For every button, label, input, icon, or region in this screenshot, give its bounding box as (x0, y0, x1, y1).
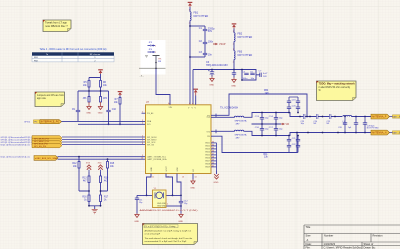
IC pin names left (147, 112, 167, 161)
svg-text:I2C[1..0] MicrocontrollerI2C[1: I2C[1..0] MicrocontrollerI2C[1..0] (1, 143, 30, 146)
port ANTENNA_P (371, 114, 390, 119)
svg-text:RF closure: RF closure (90, 53, 101, 56)
junction at 297,132.5 (296, 132, 298, 134)
wire PG over-route (211, 94, 307, 117)
wire XTAL left loop (147, 174, 153, 196)
series capacitor C25 (327, 114, 332, 125)
svg-text:SRP5030TA: SRP5030TA (235, 134, 248, 137)
wire XIN elbow from white box (156, 68, 170, 105)
svg-text:NOT FITTED: NOT FITTED (238, 54, 253, 57)
junction at 289,112.5 (288, 112, 290, 114)
title block (304, 225, 400, 249)
svg-text:10: 10 (141, 158, 143, 160)
svg-text:100n: 100n (208, 40, 214, 43)
junction at 108.5,124.3 (108, 123, 110, 125)
svg-text:Table 4 - RFID reader to RF fr: Table 4 - RFID reader to RF front end ne… (40, 48, 107, 51)
capacitor pair C19 C20 top stack (287, 97, 300, 113)
svg-text:Size: Size (306, 234, 312, 238)
series inductor L3 (342, 115, 352, 125)
shunt capacitor C27 (354, 117, 358, 133)
svg-text:INTERFACE_PG: INTERFACE_PG (41, 121, 59, 124)
svg-text:GND4: GND4 (205, 152, 210, 154)
wire divider joins (79, 190, 108, 192)
wire mid row (252, 123, 282, 125)
note N2 left (jumpers note) (35, 92, 65, 107)
svg-text:R14: R14 (104, 178, 109, 180)
power flag 3V3 right (98, 163, 103, 172)
ground GND under C11 (134, 214, 139, 223)
svg-text:GND1: GND1 (205, 143, 210, 145)
capacitor C10 right column (106, 109, 116, 124)
capacitor pair C21 C22 bottom stack (287, 136, 300, 153)
svg-text:SRP5030TA: SRP5030TA (235, 120, 248, 123)
svg-text:37: 37 (212, 153, 214, 155)
port ANTENNA_N (371, 130, 390, 135)
capacitor C1 (199, 26, 215, 34)
junction at 100.5,204.5 (100, 205, 102, 207)
svg-text:50V: 50V (208, 30, 213, 33)
svg-text:PG: PG (34, 122, 37, 124)
inductor FB3 (234, 51, 252, 60)
svg-text:ABM8AFN-32.000MHZ-D-4-Y-T (DNI: ABM8AFN-32.000MHZ-D-4-Y-T (DNI) (140, 209, 198, 212)
ground earth bottom divider (92, 209, 98, 214)
svg-text:XIN2: XIN2 (177, 167, 179, 171)
svg-text:40: 40 (212, 162, 214, 164)
junction at 120,124.3 (119, 123, 121, 125)
junction at 298,135.5 (297, 135, 299, 137)
wire port stubs right (390, 117, 393, 133)
series capacitor C23 (301, 114, 306, 125)
IC right ladder pin names (205, 143, 210, 169)
svg-text:VM: VM (286, 124, 290, 126)
svg-text:R15: R15 (110, 163, 115, 165)
svg-text:38: 38 (212, 156, 214, 158)
svg-text:HPQ-4R0-100U/16V: HPQ-4R0-100U/16V (206, 64, 228, 67)
junction at 100.5,190 (100, 190, 102, 192)
capacitor C17 (269, 124, 283, 136)
junction dots rail2 (307, 132, 366, 134)
wire cap branch top (190, 25, 205, 27)
junction at 181,195.4 (180, 195, 182, 197)
resistor R15 (107, 159, 115, 191)
svg-text:NOT FITTED: NOT FITTED (194, 15, 209, 18)
svg-text:GND2: GND2 (205, 146, 210, 148)
svg-text:GND: GND (151, 167, 153, 172)
shunt capacitor C28 (363, 117, 379, 133)
svg-text:GND: GND (98, 112, 103, 114)
svg-text:ANT_N: ANT_N (393, 131, 400, 134)
wire pin13 elbow (177, 174, 181, 196)
port INTERFACE_PG (40, 120, 62, 124)
power flag AVDD ic top (193, 89, 198, 93)
svg-text:1: 1 (155, 45, 156, 47)
svg-text:100n: 100n (243, 78, 249, 80)
svg-text:CL = (C1*C2)/(C1+C2) + Cstray: CL = (C1*C2)/(C1+C2) + Cstray (145, 225, 177, 228)
wire SCL row (78, 123, 146, 125)
power flag R7 top (118, 91, 123, 95)
power flag 3V3 left (86, 163, 91, 172)
IC ladder pin numbers (212, 141, 214, 167)
svg-text:R17: R17 (104, 197, 109, 199)
net label box GPIO (34, 120, 40, 124)
wire RX return (211, 133, 297, 153)
svg-text:GND3: GND3 (205, 149, 210, 151)
junction at 146.5,195.4 (146, 195, 148, 197)
wire main vertical x190 (189, 7, 191, 12)
wire XTAL right loop (166, 174, 173, 196)
IC pin numbers left (141, 112, 143, 160)
svg-text:Number: Number (324, 234, 333, 238)
svg-text:GND: GND (190, 188, 195, 190)
svg-text:3: 3 (142, 120, 143, 122)
svg-text:2: 2 (155, 52, 156, 54)
svg-text:R13: R13 (82, 178, 87, 180)
svg-text:XIN: XIN (169, 107, 173, 109)
svg-text:GPIO4: GPIO4 (24, 121, 31, 123)
svg-text:GND: GND (209, 85, 214, 87)
svg-text:GND: GND (134, 221, 139, 223)
resistor R13 (82, 172, 90, 195)
resistor R12 (72, 157, 80, 191)
note N4 crystal load formula (143, 224, 198, 245)
capacitor C14 (269, 113, 283, 125)
svg-text:= C2 = 8-12.5pF: = C2 = 8-12.5pF (145, 233, 161, 235)
svg-text:34: 34 (212, 144, 214, 146)
capacitor C2 (199, 34, 214, 47)
capacitor C13 (255, 113, 269, 125)
power flag VCC pullup block (98, 69, 103, 73)
inductor L1 tx1 (234, 116, 247, 125)
svg-text:SDA: SDA (147, 120, 152, 123)
pin tick TX2 (215, 130, 217, 134)
shunt capacitor C26 (338, 117, 352, 133)
wire crystal gnd pad (166, 205, 181, 207)
svg-text:Title: Title (306, 225, 311, 229)
junction dots rail1 (299, 116, 366, 118)
svg-text:NOT FITTED: NOT FITTED (238, 36, 253, 39)
svg-text:note DB2141 Rev ?: note DB2141 Rev ? (45, 24, 68, 28)
note N1 top-left (43, 20, 71, 32)
wire pin14 stub (192, 174, 194, 180)
resistor R17 (100, 195, 109, 206)
ground GND under JP1 (86, 102, 91, 114)
wire VIN drop x193 (192, 70, 194, 105)
svg-text:File:: File: (306, 245, 311, 249)
IC pin names top cluster (169, 107, 197, 109)
IC U7 body (146, 105, 212, 174)
junction at 89,204.5 (88, 205, 90, 207)
wire rail2 step down (244, 131, 371, 135)
power flag VSUP2 (232, 23, 237, 27)
svg-text:1R0: 1R0 (265, 93, 270, 95)
power arrow VMID (281, 123, 289, 126)
junction at 190,57 (189, 56, 191, 58)
svg-text:Date:: Date: (306, 242, 312, 246)
junction at 89,190 (88, 190, 90, 192)
wire SMB SCL row (58, 156, 146, 158)
ground GND under C6 (209, 77, 214, 87)
junction at 289,135.5 (288, 135, 290, 137)
junction at 181,206 (180, 205, 182, 207)
ground GND under ladder (214, 171, 219, 184)
resistor R7 (114, 96, 121, 125)
IC bottom pin name verticals (151, 165, 195, 171)
power arrow VBUS right (213, 43, 226, 46)
svg-text:Sheet of: Sheet of (364, 242, 374, 246)
ground GND under JP2 (98, 102, 103, 114)
IC right ladder stubs (211, 143, 217, 171)
net label box ANT N (393, 131, 400, 135)
ground GND under C12 (178, 214, 183, 223)
capacitor C6 electrolytic (206, 61, 228, 76)
junction at 89,91 (88, 90, 90, 92)
svg-text:SPI_SS: SPI_SS (147, 144, 155, 146)
svg-text:16V: 16V (263, 76, 267, 78)
ground GND under rail cap (231, 78, 236, 88)
svg-text:GND: GND (86, 112, 91, 114)
junction at 79,156.7 (78, 156, 80, 158)
svg-text:GND: GND (178, 221, 183, 223)
svg-text:11: 11 (152, 177, 154, 179)
wire bottom join (89, 206, 101, 210)
svg-text:GND8: GND8 (205, 164, 210, 166)
svg-text:36: 36 (212, 150, 214, 152)
IC pin numbers top (168, 103, 196, 105)
junction at 190,26 (189, 25, 191, 27)
net label box ANT P (393, 115, 400, 119)
svg-text:UART_RX/SMB_SDA: UART_RX/SMB_SDA (147, 158, 167, 161)
capacitor C12 (179, 195, 189, 213)
capacitor C9 left column (72, 109, 80, 121)
wire pullup split (89, 74, 101, 80)
capacitor C16 (255, 124, 269, 136)
wire SPI rows to IC (62, 137, 146, 145)
svg-text:The math doesn't check out tho: The math doesn't check out though, but I… (145, 237, 194, 240)
inductor L2 tx2 (234, 130, 247, 139)
svg-text:Revision: Revision (373, 234, 384, 238)
junction at 100.5,91 (100, 90, 102, 92)
junction at 172.5,195.4 (172, 195, 174, 197)
svg-text:PG_A1: PG_A1 (147, 112, 154, 115)
svg-text:ANTENNA_P: ANTENNA_P (372, 116, 387, 119)
svg-text:GND5: GND5 (205, 155, 210, 157)
svg-text:8: 8 (142, 143, 143, 145)
svg-text:4: 4 (192, 103, 193, 105)
svg-text:AT2064 Datasheet: CL = 6pF, Cs: AT2064 Datasheet: CL = 6pF, Cstray = 2-5… (145, 230, 192, 233)
ground GND pin14 (190, 180, 195, 190)
svg-text:C:\Users\..\RFID Reader.SchDoc: C:\Users\..\RFID Reader.SchDoc (324, 245, 363, 249)
table FB/DNI (32, 52, 114, 62)
junction at 307,116.5 (306, 116, 308, 118)
inductor FB1 (190, 12, 208, 21)
svg-text:app note: app note (37, 97, 47, 100)
resistor R14 (100, 172, 109, 195)
capacitor C11 (135, 195, 144, 213)
svg-text:Drawn By:: Drawn By: (364, 245, 376, 249)
capacitor C15 on rail (232, 70, 236, 78)
svg-text:R12: R12 (72, 163, 77, 165)
port SPI group (32, 136, 62, 149)
series capacitor C24 (314, 114, 319, 125)
wire FB column x234 (233, 29, 235, 70)
wire rail2 ic to coil (211, 130, 234, 132)
jumper JP1 (83, 97, 90, 103)
capacitor C7 (256, 71, 268, 78)
svg-text:// also DNPs 50 ohm correctly: // also DNPs 50 ohm correctly (319, 86, 351, 89)
svg-text:GND GND: GND GND (157, 205, 167, 207)
wire PG to IC (62, 120, 146, 122)
wire cap feeds (137, 194, 181, 196)
resistor R5 (83, 81, 90, 88)
power flag VSUP top (188, 2, 193, 6)
svg-text:C10: C10 (112, 109, 117, 111)
svg-text:recommended CL = 8pF and C1=C2: recommended CL = 8pF and C1=C2 = 15pF (145, 241, 188, 243)
wire rail VIN y69.5 (193, 69, 256, 71)
capacitor C4 C5 loop (241, 69, 256, 81)
svg-text:Jumpers and JPs are from: Jumpers and JPs are from (37, 94, 64, 97)
IC pin names right (206, 115, 211, 138)
svg-text:ANTENNA_N: ANTENNA_N (372, 132, 387, 135)
port uOBC_BUS (34, 156, 58, 161)
net class text GPIO bus rows (1, 136, 34, 147)
wire cap branch bottom (190, 56, 205, 58)
svg-text:TP1: TP1 (158, 58, 161, 60)
wire pullup mid row (78, 87, 109, 110)
crystal Y1 (153, 188, 169, 207)
junction at 298,112.5 (297, 112, 299, 114)
wire rail1 ic to coil (211, 116, 234, 118)
svg-text:14: 14 (195, 177, 197, 179)
svg-text:SPI_SS_PG: SPI_SS_PG (34, 146, 46, 148)
svg-text:0: 0 (189, 103, 190, 105)
note N3 right (matching network todo) (317, 81, 357, 101)
svg-text:A: A (307, 238, 309, 242)
svg-text:GND9: GND9 (205, 167, 210, 169)
svg-text:GND6: GND6 (205, 158, 210, 160)
wire rail1 step up (244, 113, 371, 118)
svg-text:4u7/: 4u7/ (263, 73, 268, 75)
svg-text:GND: GND (214, 182, 219, 184)
junction at 212,69.5 (211, 69, 213, 71)
svg-text:NOT FITTED: NOT FITTED (367, 128, 379, 130)
svg-text:uOBC_BUS_SCL_SDA: uOBC_BUS_SCL_SDA (35, 157, 57, 160)
capacitor C3 (199, 47, 213, 57)
inductor FB2 (234, 33, 252, 42)
svg-text:- A --: - A -- (140, 74, 145, 77)
svg-text:13: 13 (182, 177, 184, 179)
svg-text:33: 33 (212, 141, 214, 143)
wire SMB SDA row (58, 158, 146, 160)
svg-text:GND: GND (231, 86, 236, 88)
white overlay box (139, 40, 166, 77)
IC U7 left pin stubs (142, 112, 146, 114)
IC bottom pin numbers (152, 177, 197, 179)
junction at 107.5,159.2 (107, 158, 109, 160)
svg-text:4: 4 (142, 123, 143, 125)
svg-text:XOUT: XOUT (166, 165, 168, 171)
svg-text:R16: R16 (82, 197, 87, 199)
resistor R16 (82, 195, 90, 206)
svg-text:VSUP: VSUP (219, 43, 226, 46)
wire AVDD stub (195, 96, 197, 105)
svg-text:39: 39 (212, 159, 214, 161)
svg-text:10n: 10n (208, 53, 213, 56)
svg-text:I2C[1..0] MicrocontrollerI2C[1: I2C[1..0] MicrocontrollerI2C[1..0] (1, 156, 30, 159)
pin tick TX1 (215, 114, 217, 118)
svg-text:2: 2 (167, 204, 168, 206)
resistor R6 (100, 81, 108, 88)
svg-text:FB4: FB4 (264, 90, 269, 92)
svg-text:1/10/2023: 1/10/2023 (324, 242, 336, 246)
svg-text:41: 41 (212, 165, 214, 167)
svg-text:ANT_P: ANT_P (393, 115, 400, 118)
white box jumper details (145, 42, 162, 69)
junction dots cap grid (261, 112, 277, 137)
svg-text:2: 2 (142, 112, 143, 114)
IC bottom pin names (0, 0, 1, 1)
svg-text:35: 35 (212, 147, 214, 149)
jumper JP2 (100, 97, 108, 103)
svg-text:GND7: GND7 (205, 161, 210, 163)
junction at 234,69.5 (233, 69, 235, 71)
